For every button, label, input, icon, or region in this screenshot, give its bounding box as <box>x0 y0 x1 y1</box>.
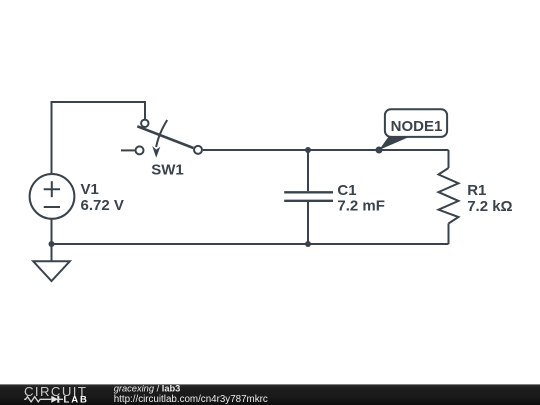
label V1 value 6.72 V <box>81 181 124 214</box>
svg-text:http://circuitlab.com/cn4r3y78: http://circuitlab.com/cn4r3y787mkrc <box>114 394 268 405</box>
svg-text:R1: R1 <box>467 182 486 199</box>
svg-text:SW1: SW1 <box>151 162 184 179</box>
node NODE1 dot <box>376 147 383 154</box>
junction at capacitor top <box>305 147 311 153</box>
switch SW1 right terminal <box>194 146 202 154</box>
svg-text:7.2 mF: 7.2 mF <box>337 198 385 215</box>
label C1 value 7.2 mF <box>337 182 385 215</box>
svg-text:gracexing / lab3: gracexing / lab3 <box>114 384 181 394</box>
bottom wire run <box>52 243 449 245</box>
logo diode <box>51 396 63 403</box>
node NODE1 callout <box>379 109 447 150</box>
svg-text:V1: V1 <box>81 181 99 198</box>
switch SW1 top terminal <box>141 120 148 127</box>
capacitor C1 top lead <box>307 150 309 191</box>
label R1 value 7.2 kOhm <box>467 182 512 215</box>
logo CIRCUIT wordmark <box>24 384 87 399</box>
svg-text:7.2 kΩ: 7.2 kΩ <box>467 198 512 215</box>
url line <box>114 394 268 405</box>
wire V1 top to switch top terminal <box>52 102 146 175</box>
switch SW1 arm <box>137 126 193 148</box>
junction at V1 bottom <box>49 241 55 247</box>
svg-text:C1: C1 <box>337 182 356 199</box>
credit line gracexing / lab3 <box>114 384 181 394</box>
svg-text:6.72 V: 6.72 V <box>81 197 124 214</box>
label SW1 <box>151 162 184 179</box>
wire stub to switch pole <box>121 149 135 151</box>
capacitor C1 bottom lead <box>307 202 309 244</box>
junction at capacitor bottom <box>305 241 311 247</box>
V1 bottom lead to ground <box>51 219 53 261</box>
wire top run from switch to resistor bend <box>203 149 449 151</box>
switch SW1 actuation arrow <box>152 120 167 158</box>
switch SW1 pole terminal <box>136 146 144 154</box>
ground <box>33 261 70 281</box>
footer bar <box>0 384 540 405</box>
wire from R1 to bottom run <box>448 224 450 245</box>
capacitor C1 plates <box>284 192 333 201</box>
logo resistor squiggle <box>24 397 51 402</box>
wire bend into resistor R1 <box>448 150 450 168</box>
logo LAB wordmark <box>64 394 89 405</box>
voltage source V1 <box>30 174 75 219</box>
svg-text:NODE1: NODE1 <box>391 118 443 135</box>
resistor R1 <box>439 168 459 224</box>
svg-text:LAB: LAB <box>64 394 89 405</box>
